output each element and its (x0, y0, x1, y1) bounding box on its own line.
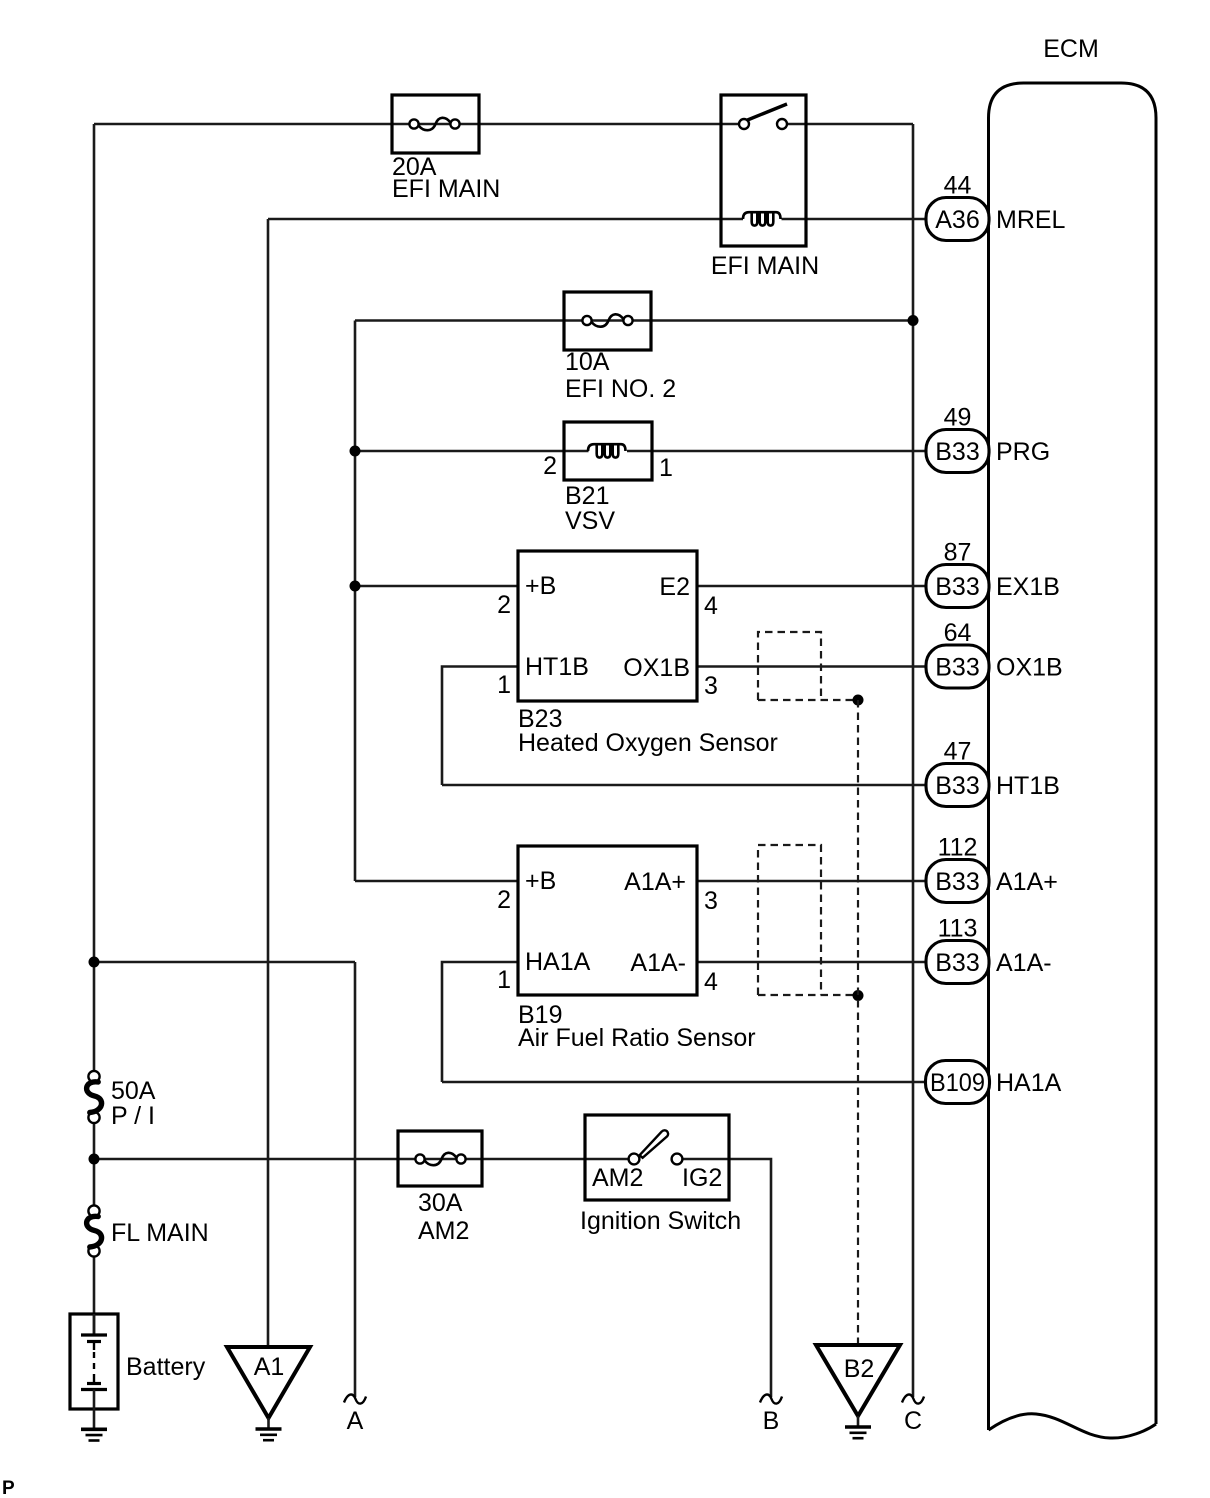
svg-text:B21: B21 (565, 482, 609, 510)
wire vertical x=355 upper (fuse to sensors +B) (354, 321, 357, 882)
ground B2 ground (845, 1427, 871, 1438)
svg-text:PRG: PRG (996, 438, 1050, 466)
svg-text:10A: 10A (565, 348, 610, 376)
junction dot battery bus / sensor feed (89, 957, 100, 968)
wire +B of B23 y=586 left (355, 585, 518, 588)
relay EFI MAIN (711, 95, 819, 280)
svg-text:AM2: AM2 (592, 1164, 643, 1192)
svg-text:A36: A36 (935, 206, 979, 234)
wire IG2 to node B (677, 1159, 771, 1397)
svg-text:2: 2 (497, 591, 511, 619)
svg-text:B33: B33 (935, 868, 979, 896)
node A (off-page connector) (344, 1394, 366, 1435)
svg-text:EFI MAIN: EFI MAIN (392, 175, 500, 203)
svg-text:4: 4 (704, 592, 718, 620)
svg-text:A1A-: A1A- (996, 949, 1052, 977)
node C (off-page connector) (902, 1394, 924, 1435)
wire A1A+ of B19 y=881 (697, 880, 926, 883)
junction dot VSV feed (350, 446, 361, 457)
wire HT1B of B23 left+down (442, 667, 518, 786)
wire relay switch to C bus, down x=913 (912, 124, 915, 1397)
svg-text:B: B (763, 1407, 780, 1435)
svg-text:87: 87 (944, 539, 972, 567)
svg-text:1: 1 (497, 671, 511, 699)
wire HT1B lower run y=785 (442, 784, 926, 787)
ECM pin 113 B33 A1A- (926, 915, 1052, 984)
ECM pin 87 B33 EX1B (926, 539, 1060, 608)
svg-text:OX1B: OX1B (623, 654, 690, 682)
svg-text:P: P (2, 1478, 15, 1498)
svg-text:113: 113 (938, 915, 978, 943)
svg-text:VSV: VSV (565, 507, 615, 535)
wire vertical x=268 (MREL down to ground A1) (267, 219, 270, 1347)
svg-text:MREL: MREL (996, 206, 1066, 234)
relay switch lever (748, 104, 788, 120)
battery (70, 1314, 206, 1428)
svg-text:Ignition Switch: Ignition Switch (580, 1207, 741, 1235)
svg-text:4: 4 (704, 968, 718, 996)
svg-text:30A: 30A (418, 1189, 463, 1217)
ECM pin 49 B33 PRG (926, 404, 1050, 473)
ECM connector body outline (989, 83, 1157, 1438)
svg-text:EFI NO. 2: EFI NO. 2 (565, 375, 676, 403)
wire HA1A lower run to B109 y=1082 (442, 1081, 926, 1084)
svg-text:B33: B33 (935, 772, 979, 800)
fuse 20A EFI MAIN (392, 95, 500, 203)
ignition switch (580, 1115, 741, 1235)
solenoid valve B21 VSV (543, 422, 673, 535)
svg-text:112: 112 (938, 834, 978, 862)
svg-text:OX1B: OX1B (996, 654, 1063, 682)
fuse 10A EFI NO. 2 (564, 292, 676, 403)
svg-text:A1: A1 (254, 1353, 285, 1381)
svg-text:IG2: IG2 (682, 1164, 722, 1192)
wire battery+ to EFI MAIN fuse and relay (top, y=124) (94, 123, 913, 126)
wire E2 of B23 to EX1B y=586 (697, 585, 926, 588)
wire EFI NO.2 fuse row y=320.5 (355, 319, 913, 322)
svg-text:44: 44 (944, 172, 972, 200)
svg-text:Air Fuel Ratio Sensor: Air Fuel Ratio Sensor (518, 1024, 756, 1052)
svg-text:E2: E2 (659, 573, 690, 601)
shield (dashed) around B19 signal wires (758, 845, 858, 995)
svg-text:HT1B: HT1B (996, 772, 1060, 800)
svg-text:50A: 50A (111, 1077, 156, 1105)
svg-text:1: 1 (497, 966, 511, 994)
svg-text:EFI MAIN: EFI MAIN (711, 252, 819, 280)
svg-text:3: 3 (704, 672, 718, 700)
wire VSV to PRG y=451 (355, 450, 926, 453)
svg-text:A1A+: A1A+ (624, 868, 686, 896)
wire HA1A of B19 left+down (442, 962, 518, 1082)
svg-text:47: 47 (944, 738, 972, 766)
ground point triangle B2 (816, 1345, 900, 1426)
svg-text:+B: +B (525, 867, 556, 895)
wire OX1B of B23 to OX1B pin y=666.5 (697, 665, 926, 668)
svg-text:+B: +B (525, 572, 556, 600)
ground battery ground (81, 1429, 107, 1440)
svg-text:2: 2 (543, 452, 557, 480)
svg-text:FL MAIN: FL MAIN (111, 1219, 209, 1247)
svg-text:P / I: P / I (111, 1102, 155, 1130)
svg-text:3: 3 (704, 887, 718, 915)
svg-text:C: C (904, 1407, 922, 1435)
svg-text:B33: B33 (935, 438, 979, 466)
svg-text:49: 49 (944, 404, 972, 432)
ECM pin 47 B33 HT1B (926, 738, 1060, 807)
wire A1A- of B19 y=962 (697, 961, 926, 964)
svg-text:EX1B: EX1B (996, 573, 1060, 601)
svg-text:HA1A: HA1A (996, 1069, 1062, 1097)
svg-text:Heated Oxygen Sensor: Heated Oxygen Sensor (518, 729, 778, 757)
svg-text:A1A+: A1A+ (996, 868, 1058, 896)
ECM pin 64 B33 OX1B (926, 619, 1063, 688)
wire battery junction to A-line y=962 (94, 961, 355, 964)
svg-text:A1A-: A1A- (630, 949, 686, 977)
junction dot EFI NO.2 / C bus (908, 315, 919, 326)
ground point triangle A1 (227, 1347, 310, 1428)
svg-text:B2: B2 (844, 1355, 875, 1383)
shield ground junction dot B23 (853, 695, 864, 706)
junction dot battery bus / AM2 feed (89, 1154, 100, 1165)
ignition switch lever (640, 1130, 669, 1158)
shield ground junction dot B19 (853, 990, 864, 1001)
svg-text:A: A (347, 1407, 364, 1435)
fusible link 50A P/I (87, 1071, 156, 1130)
ECM pin B109 HA1A (926, 1061, 1062, 1104)
relay switch contacts (739, 119, 749, 129)
relay coil (743, 212, 781, 225)
ground A1 ground (256, 1429, 282, 1440)
shield drain dashed wire to ground B2 (857, 700, 859, 1345)
svg-text:Battery: Battery (126, 1353, 206, 1381)
svg-text:HT1B: HT1B (525, 653, 589, 681)
sensor B23 Heated Oxygen Sensor (497, 551, 778, 757)
svg-text:ECM: ECM (1043, 35, 1099, 63)
svg-text:B33: B33 (935, 949, 979, 977)
junction dot B23 +B feed (350, 581, 361, 592)
fuse 30A AM2 (398, 1131, 482, 1245)
shield (dashed) around B23 OX1B wire (758, 632, 858, 700)
svg-text:B33: B33 (935, 654, 979, 682)
wire vertical x=355 lower (to node A) (354, 962, 357, 1397)
svg-text:64: 64 (944, 619, 972, 647)
wire +B of B19 y=881 left (355, 880, 518, 883)
wire left bus vertical x=94 (battery feed) (93, 124, 96, 1335)
svg-text:HA1A: HA1A (525, 948, 591, 976)
sensor B19 Air Fuel Ratio Sensor (497, 846, 756, 1052)
svg-text:B109: B109 (930, 1069, 985, 1097)
fusible link FL MAIN (87, 1205, 209, 1256)
svg-text:B33: B33 (935, 573, 979, 601)
wire AM2 feed y=1159 (94, 1158, 634, 1161)
ECM pin 112 B33 A1A+ (926, 834, 1058, 903)
svg-text:1: 1 (659, 454, 673, 482)
svg-text:AM2: AM2 (418, 1217, 469, 1245)
svg-text:2: 2 (497, 886, 511, 914)
node B (off-page connector) (760, 1394, 782, 1435)
wire MREL: A1 line to relay coil to A36 (268, 218, 926, 221)
ECM pin 44 A36 MREL (926, 172, 1066, 241)
